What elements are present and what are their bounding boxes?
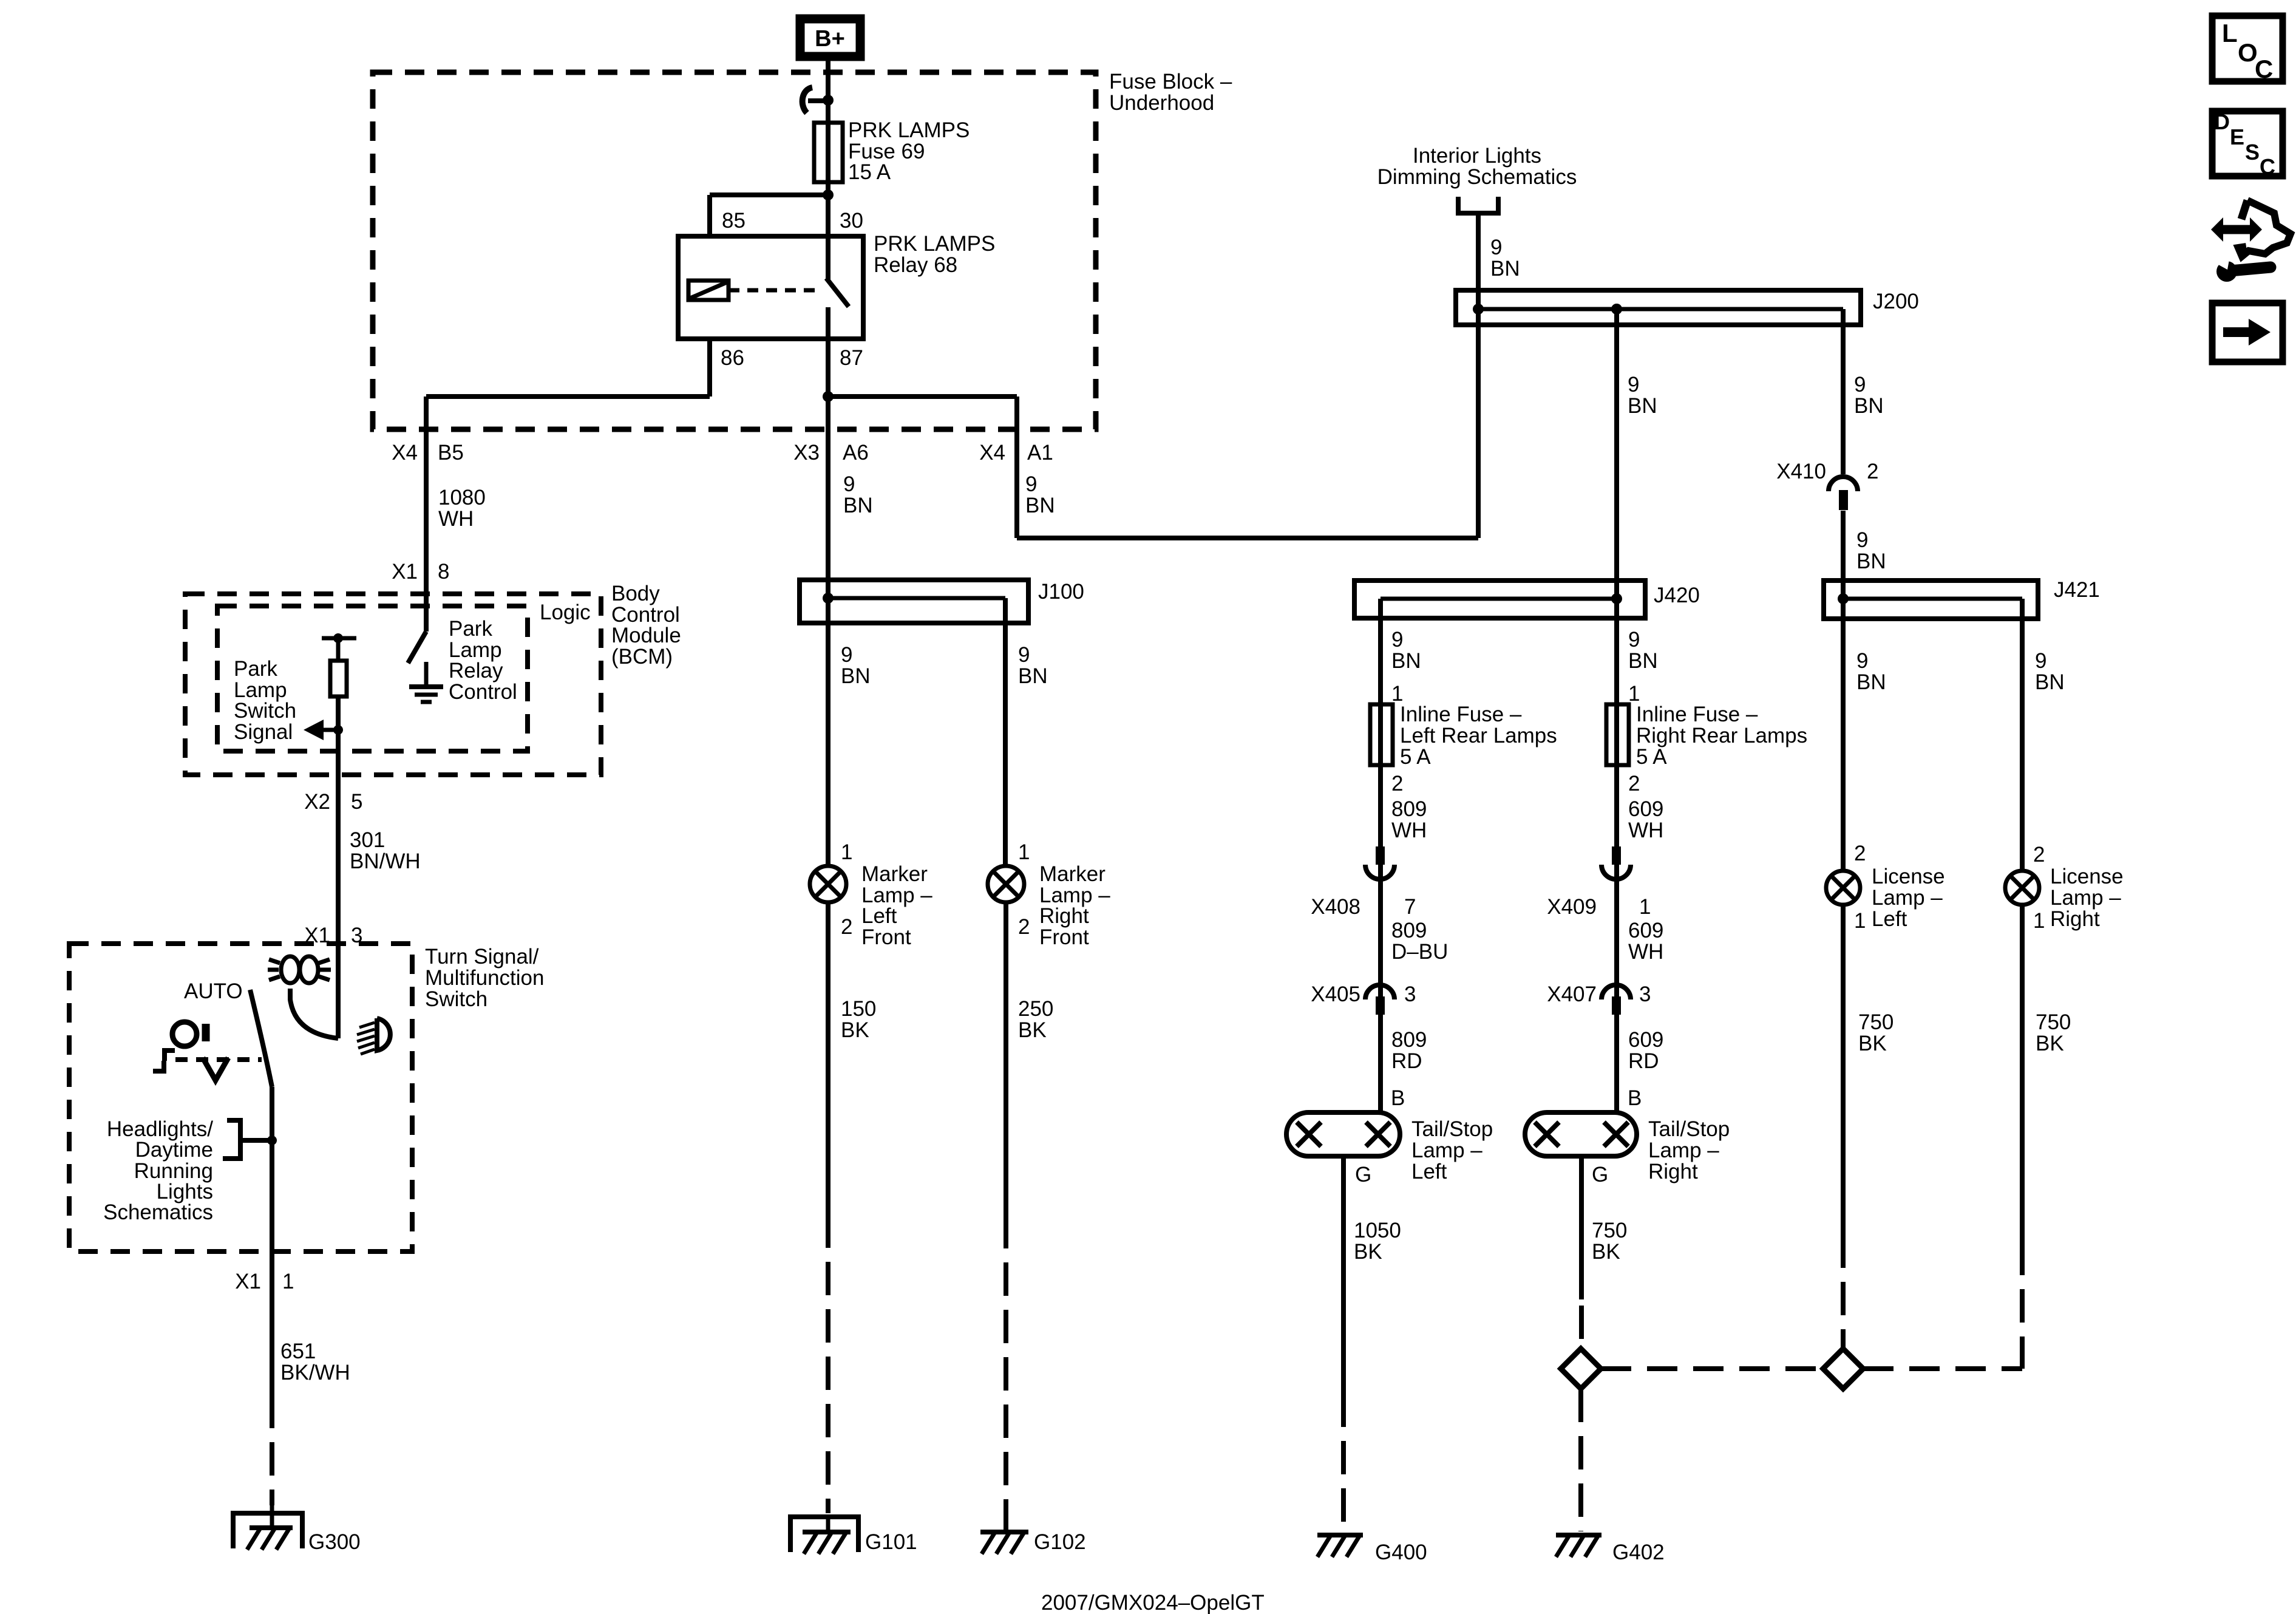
svg-text:Front: Front [861, 925, 911, 949]
marker lamp right front [988, 866, 1024, 902]
svg-text:X1: X1 [235, 1270, 261, 1293]
wire hidden to diamond splice [1579, 1306, 1584, 1339]
svg-text:Left: Left [861, 904, 897, 928]
svg-text:Module: Module [611, 624, 681, 647]
svg-text:BN: BN [1856, 550, 1886, 573]
switch lever [250, 990, 272, 1087]
svg-text:Underhood: Underhood [1109, 91, 1214, 115]
svg-text:Switch: Switch [425, 987, 487, 1011]
svg-text:BN: BN [1628, 649, 1658, 673]
svg-text:Relay 68: Relay 68 [874, 253, 957, 277]
svg-text:D: D [2214, 109, 2230, 134]
diamond splice S1 [1561, 1349, 1601, 1389]
wire to relay pin 85 [710, 192, 828, 197]
svg-text:X1: X1 [392, 560, 418, 584]
headlights daytime running lights bracket [223, 1120, 240, 1159]
svg-text:9: 9 [1490, 236, 1502, 259]
wire 651 BK/WH [270, 1251, 274, 1395]
tail stop lamp right [1525, 1112, 1637, 1156]
svg-text:D–BU: D–BU [1391, 940, 1448, 964]
svg-text:J100: J100 [1038, 580, 1084, 604]
svg-text:301: 301 [350, 828, 385, 852]
svg-text:86: 86 [721, 346, 744, 370]
relay coil [688, 281, 729, 300]
svg-text:Inline Fuse –: Inline Fuse – [1636, 703, 1758, 726]
svg-text:Lamp –: Lamp – [1411, 1139, 1483, 1162]
splice pack J421 [1824, 581, 2038, 619]
wire J100 right branch down [1003, 598, 1008, 866]
svg-text:X409: X409 [1547, 895, 1597, 919]
wire relay 87 down (output) [826, 307, 830, 866]
svg-text:BN: BN [1391, 649, 1421, 673]
wire relay 86 to BCM [707, 339, 712, 397]
svg-text:License: License [2050, 865, 2124, 888]
svg-text:B5: B5 [438, 441, 464, 465]
svg-text:Lamp –: Lamp – [1648, 1139, 1719, 1162]
svg-text:Control: Control [449, 680, 517, 704]
down arrow V [203, 1058, 228, 1080]
svg-text:BN: BN [1628, 394, 1657, 418]
resistor park lamp switch signal [330, 661, 347, 696]
svg-text:RD: RD [1628, 1049, 1659, 1073]
switch wiper arc [290, 989, 338, 1038]
svg-text:G400: G400 [1375, 1541, 1427, 1564]
wire 750 BK tail right [1579, 1156, 1584, 1299]
svg-text:3: 3 [1639, 982, 1651, 1006]
svg-text:15 A: 15 A [848, 160, 891, 184]
svg-text:BK: BK [1858, 1032, 1887, 1055]
node terminal bar above park lamp switch resistor [322, 636, 356, 641]
svg-text:2: 2 [1391, 772, 1403, 795]
svg-text:7: 7 [1404, 895, 1416, 919]
svg-text:BN: BN [841, 664, 871, 688]
svg-text:750: 750 [1858, 1010, 1894, 1034]
svg-text:1: 1 [2033, 909, 2045, 933]
wire hidden to G400 [1341, 1394, 1346, 1531]
svg-text:9: 9 [841, 643, 852, 667]
svg-text:Park: Park [234, 657, 277, 681]
svg-text:Lamp –: Lamp – [2050, 886, 2121, 910]
svg-text:BK: BK [1018, 1018, 1047, 1042]
arrow park lamp switch signal [323, 728, 338, 732]
svg-text:E: E [2230, 124, 2244, 149]
park lamps icon [281, 956, 299, 983]
svg-text:9: 9 [1628, 373, 1639, 397]
marker lamp left front [810, 866, 846, 902]
svg-text:Right: Right [1039, 904, 1089, 928]
wire J200 middle drop to J420 [1614, 309, 1619, 1112]
svg-text:2: 2 [1854, 842, 1866, 865]
relay coil-contact dashed link [729, 288, 821, 293]
svg-text:9: 9 [843, 472, 855, 496]
wire J200 right drop [1841, 309, 1846, 474]
svg-text:WH: WH [1628, 819, 1663, 842]
battery feed B+ box [800, 19, 860, 56]
svg-text:X407: X407 [1547, 982, 1597, 1006]
svg-text:Multifunction: Multifunction [425, 966, 544, 990]
svg-text:Tail/Stop: Tail/Stop [1648, 1117, 1730, 1141]
svg-text:G: G [1592, 1163, 1608, 1187]
svg-text:L: L [2222, 19, 2238, 47]
wire 87 branch to A1 [828, 394, 1017, 399]
wire 1050 BK [1341, 1156, 1346, 1394]
svg-text:Logic: Logic [540, 601, 591, 624]
svg-text:Dimming Schematics: Dimming Schematics [1377, 165, 1577, 189]
wire J420 left drop [1378, 599, 1383, 1112]
wire hidden to G300 [270, 1395, 274, 1505]
svg-text:X3: X3 [793, 441, 820, 465]
svg-text:X410: X410 [1776, 460, 1826, 483]
svg-text:2: 2 [1867, 460, 1878, 483]
svg-text:(BCM): (BCM) [611, 645, 673, 669]
svg-text:C: C [2255, 55, 2273, 83]
ground G400 [1317, 1533, 1363, 1537]
svg-text:150: 150 [841, 997, 876, 1021]
svg-text:9: 9 [1854, 373, 1866, 397]
fuse PRK LAMPS Fuse 69 15A [814, 123, 843, 182]
svg-text:651: 651 [280, 1340, 316, 1363]
diamond splice S2 [1823, 1349, 1863, 1389]
svg-text:X4: X4 [392, 441, 418, 465]
svg-text:Turn Signal/: Turn Signal/ [425, 945, 539, 969]
relay K68 PRK LAMPS Relay box [678, 236, 863, 339]
inline connector X405 pin 3 [1365, 985, 1394, 999]
svg-text:J420: J420 [1654, 584, 1700, 607]
svg-text:J421: J421 [2054, 578, 2100, 602]
svg-text:J200: J200 [1873, 290, 1919, 313]
svg-text:2: 2 [2033, 843, 2045, 867]
node junction below fuse [823, 189, 834, 200]
wire park lamp switch signal down [336, 696, 341, 945]
svg-text:Daytime: Daytime [135, 1138, 213, 1162]
svg-text:X2: X2 [304, 790, 330, 814]
svg-text:B+: B+ [815, 26, 845, 52]
svg-text:609: 609 [1628, 1028, 1663, 1052]
svg-text:Body: Body [611, 582, 660, 605]
svg-text:PRK LAMPS: PRK LAMPS [874, 232, 995, 256]
svg-text:5: 5 [351, 790, 362, 814]
svg-text:BN: BN [1854, 394, 1884, 418]
svg-text:PRK LAMPS: PRK LAMPS [848, 118, 970, 142]
svg-text:9: 9 [1025, 472, 1037, 496]
ground G300 [233, 1513, 302, 1548]
svg-text:X4: X4 [979, 441, 1005, 465]
wire interior lights to J200 and A1 feed [1476, 213, 1481, 538]
svg-text:9: 9 [1856, 528, 1868, 552]
svg-text:Left: Left [1872, 907, 1907, 931]
svg-text:BN: BN [843, 494, 873, 517]
svg-text:Tail/Stop: Tail/Stop [1411, 1117, 1493, 1141]
svg-text:Right: Right [1648, 1160, 1698, 1183]
svg-text:License: License [1872, 865, 1945, 888]
body control module BCM dashed box [185, 594, 601, 775]
svg-text:809: 809 [1391, 919, 1427, 942]
svg-text:RD: RD [1391, 1049, 1422, 1073]
tail stop lamp left [1286, 1112, 1400, 1156]
wire 150 BK [826, 902, 830, 1214]
off position icon O [172, 1022, 197, 1046]
svg-text:Park: Park [449, 617, 492, 641]
svg-text:BK: BK [2036, 1032, 2064, 1055]
park lamp relay control switch [408, 632, 426, 663]
svg-text:2007/GMX024–OpelGT: 2007/GMX024–OpelGT [1041, 1591, 1265, 1614]
svg-text:1: 1 [1018, 840, 1030, 864]
wire lever to X1 pin 1 [270, 1087, 274, 1251]
relay switch contact [826, 278, 849, 307]
svg-text:B: B [1628, 1086, 1642, 1110]
svg-text:A1: A1 [1027, 441, 1053, 465]
svg-text:G102: G102 [1034, 1530, 1086, 1554]
svg-text:9: 9 [1856, 649, 1868, 673]
svg-text:Interior Lights: Interior Lights [1413, 144, 1541, 168]
svg-text:3: 3 [1404, 982, 1416, 1006]
wire B+ down to relay pin 30 [826, 61, 830, 279]
svg-text:Right Rear Lamps: Right Rear Lamps [1636, 724, 1807, 747]
wire hidden diamond to G402 [1578, 1389, 1583, 1531]
svg-text:5 A: 5 A [1400, 745, 1431, 769]
svg-text:Marker: Marker [861, 862, 928, 886]
svg-text:750: 750 [2036, 1010, 2071, 1034]
ground G101 [790, 1517, 858, 1552]
svg-text:BK/WH: BK/WH [280, 1361, 350, 1384]
inline connector X410 pin 2 [1829, 477, 1858, 491]
svg-text:BN: BN [1025, 494, 1055, 517]
license lamp right [2005, 871, 2039, 905]
wire 250 BK [1004, 902, 1008, 1215]
icon arrow box [2212, 303, 2283, 362]
svg-text:X405: X405 [1311, 982, 1360, 1006]
svg-text:Schematics: Schematics [103, 1200, 213, 1224]
svg-text:BN: BN [1018, 664, 1048, 688]
icon car with arrow and wrench [2216, 225, 2254, 234]
svg-text:WH: WH [438, 507, 474, 531]
svg-text:609: 609 [1628, 919, 1663, 942]
svg-text:G101: G101 [865, 1530, 917, 1554]
wire X410 to J421 [1841, 511, 1846, 871]
svg-text:750: 750 [1592, 1219, 1627, 1242]
ground G402 [1556, 1533, 1601, 1537]
wire 750 BK license left [1841, 905, 1846, 1234]
headlamp icon [377, 1018, 390, 1050]
position detent mark [153, 1050, 175, 1071]
svg-text:250: 250 [1018, 997, 1053, 1021]
svg-text:BK: BK [1592, 1240, 1620, 1264]
svg-text:BN: BN [1490, 257, 1520, 281]
splice pack J100 [800, 580, 1028, 623]
svg-text:1: 1 [282, 1270, 294, 1293]
wire hidden license left to diamond2 [1841, 1234, 1846, 1349]
inline fuse right rear lamps 5A [1606, 704, 1629, 765]
svg-text:9: 9 [1391, 628, 1403, 652]
svg-text:G402: G402 [1612, 1541, 1665, 1564]
splice pack J420 [1354, 581, 1645, 618]
inline fuse left rear lamps 5A [1370, 704, 1393, 765]
wire 750 BK license right [2020, 905, 2025, 1242]
inline connector X409 pin 1 [1612, 846, 1621, 865]
off page connector bracket [1458, 197, 1498, 213]
splice pack J200 [1456, 290, 1861, 325]
svg-text:BN: BN [2035, 670, 2065, 694]
svg-text:Lamp –: Lamp – [1872, 886, 1943, 910]
svg-text:9: 9 [1628, 628, 1640, 652]
wire into switch fixed contact [336, 944, 341, 1038]
svg-text:Relay: Relay [449, 659, 503, 683]
svg-text:30: 30 [840, 209, 863, 233]
svg-text:1: 1 [1854, 909, 1866, 933]
svg-text:BN/WH: BN/WH [350, 850, 421, 873]
svg-text:G300: G300 [308, 1530, 361, 1554]
svg-text:BK: BK [1354, 1240, 1382, 1264]
svg-text:BN: BN [1856, 670, 1886, 694]
clamp clip symbol at B+ entry [803, 87, 812, 113]
svg-text:B: B [1391, 1086, 1405, 1110]
svg-text:1050: 1050 [1354, 1219, 1401, 1242]
svg-text:X408: X408 [1311, 895, 1360, 919]
fuse block underhood dashed box [373, 72, 1096, 429]
license lamp left [1826, 871, 1860, 905]
junction at clip [823, 95, 834, 106]
icon DESC box [2212, 111, 2283, 176]
svg-text:AUTO: AUTO [184, 979, 243, 1003]
svg-text:2: 2 [1018, 915, 1030, 939]
svg-text:Left Rear Lamps: Left Rear Lamps [1400, 724, 1557, 747]
junction at 87 branch [823, 391, 834, 402]
svg-text:Fuse Block –: Fuse Block – [1109, 70, 1232, 94]
svg-text:Switch: Switch [234, 699, 296, 723]
svg-text:1: 1 [1639, 895, 1651, 919]
wire hidden to G102 [1004, 1215, 1008, 1532]
svg-text:85: 85 [722, 209, 746, 233]
wire J421 right drop [2020, 599, 2025, 871]
svg-text:Marker: Marker [1039, 862, 1106, 886]
svg-text:5 A: 5 A [1636, 745, 1667, 769]
icon LOC box [2212, 16, 2283, 81]
svg-text:Front: Front [1039, 925, 1089, 949]
svg-text:9: 9 [1018, 643, 1030, 667]
inline connector X407 pin 3 [1601, 985, 1631, 999]
svg-text:2: 2 [1628, 772, 1640, 795]
svg-text:C: C [2260, 154, 2275, 179]
wire to resistor [336, 638, 341, 661]
svg-text:Signal: Signal [234, 720, 293, 744]
svg-text:BK: BK [841, 1018, 869, 1042]
svg-text:809: 809 [1391, 1028, 1427, 1052]
svg-text:9: 9 [2035, 649, 2046, 673]
svg-text:809: 809 [1391, 797, 1427, 821]
svg-text:8: 8 [438, 560, 449, 584]
svg-text:Left: Left [1411, 1160, 1447, 1183]
svg-text:WH: WH [1628, 940, 1663, 964]
turn signal multifunction switch dashed box [69, 944, 412, 1251]
dashed selector line [175, 1057, 262, 1062]
BCM logic dashed box [217, 606, 528, 751]
ground symbol inside BCM [409, 684, 443, 689]
svg-text:Inline Fuse –: Inline Fuse – [1400, 703, 1522, 726]
wire hidden license right down [2020, 1242, 2025, 1369]
svg-text:A6: A6 [843, 441, 869, 465]
svg-text:1: 1 [841, 840, 852, 864]
inline connector X408 pin 7 [1376, 846, 1385, 865]
on position icon bar [202, 1024, 210, 1041]
svg-text:S: S [2245, 140, 2260, 165]
svg-text:2: 2 [841, 915, 852, 939]
wire hidden diamond to diamond [1601, 1366, 1823, 1371]
svg-text:Right: Right [2050, 907, 2100, 931]
svg-text:WH: WH [1391, 819, 1427, 842]
wire hidden diamond2 to license right [1863, 1366, 2022, 1371]
svg-text:G: G [1355, 1163, 1371, 1187]
ground G102 [980, 1530, 1028, 1534]
wire hidden to G101 [826, 1214, 830, 1513]
svg-text:1080: 1080 [438, 486, 486, 509]
svg-text:87: 87 [840, 346, 863, 370]
svg-text:609: 609 [1628, 797, 1663, 821]
